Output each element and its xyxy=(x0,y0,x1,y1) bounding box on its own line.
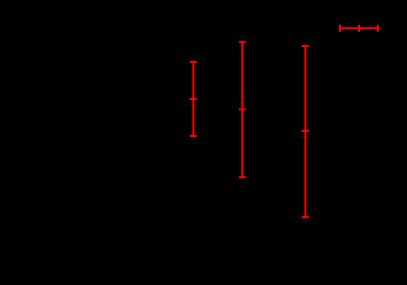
error bar 2 bottom cap xyxy=(239,176,246,178)
error bar 3 point marker xyxy=(302,130,309,132)
error bar 2 stem xyxy=(241,42,243,177)
legend right cap xyxy=(377,25,379,32)
error bar 2 top cap xyxy=(239,41,246,43)
error bar 1 bottom cap xyxy=(190,135,197,137)
error bar 1 top cap xyxy=(190,61,197,63)
error bar 1 point marker xyxy=(190,98,197,100)
error bar 2 point marker xyxy=(239,108,246,110)
error bar 3 bottom cap xyxy=(302,216,309,218)
legend key sample horizontal line xyxy=(339,27,379,29)
error bar 1 stem xyxy=(192,62,194,136)
error bar 3 top cap xyxy=(302,45,309,47)
legend middle point marker xyxy=(358,25,360,32)
error bar 3 stem xyxy=(304,46,306,217)
legend left cap xyxy=(339,25,341,32)
